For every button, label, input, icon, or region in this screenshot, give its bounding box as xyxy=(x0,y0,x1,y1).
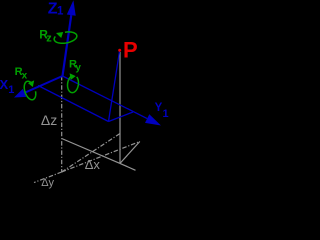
Y axis with arrow xyxy=(63,76,162,126)
svg-text:X: X xyxy=(0,77,9,92)
node P (red point) xyxy=(118,49,121,52)
rotation arrow R_z around Z axis xyxy=(54,32,77,43)
rotation arrow R_x around X axis xyxy=(24,80,36,99)
svg-text:Δy: Δy xyxy=(41,177,54,189)
svg-text:P: P xyxy=(123,37,138,62)
svg-text:1: 1 xyxy=(8,84,14,96)
wire: delta-y dash-dot lower-left xyxy=(34,172,62,183)
wire: blue box edge V1-B1 xyxy=(38,86,109,122)
wire: dash-dot from G to point below P xyxy=(62,134,120,173)
svg-text:y: y xyxy=(75,62,81,73)
svg-text:z: z xyxy=(46,33,52,45)
wire: blue edge B1 up to P xyxy=(109,50,120,121)
rotation arrow R_y around Y axis xyxy=(68,73,79,92)
wire: delta-x dash-dot from G up-right to corner E xyxy=(62,142,140,173)
svg-text:Δx: Δx xyxy=(85,157,101,172)
wire: gray floor line to box corner G2 xyxy=(62,139,120,164)
svg-text:1: 1 xyxy=(57,6,64,18)
wire: vertical drop line from P xyxy=(119,52,121,163)
wire: box corner edge up-right xyxy=(120,142,140,164)
wire: delta-z dash-dot vertical from origin down xyxy=(61,76,63,172)
svg-text:1: 1 xyxy=(163,108,169,120)
wire: box corner edge down-right xyxy=(120,163,136,170)
svg-text:Δz: Δz xyxy=(41,112,57,128)
X axis with arrow xyxy=(14,76,63,98)
svg-text:Y: Y xyxy=(155,102,163,114)
wire: blue box edge B1-A1 xyxy=(109,112,134,122)
Z axis with arrow xyxy=(63,0,76,76)
svg-text:x: x xyxy=(22,70,28,81)
